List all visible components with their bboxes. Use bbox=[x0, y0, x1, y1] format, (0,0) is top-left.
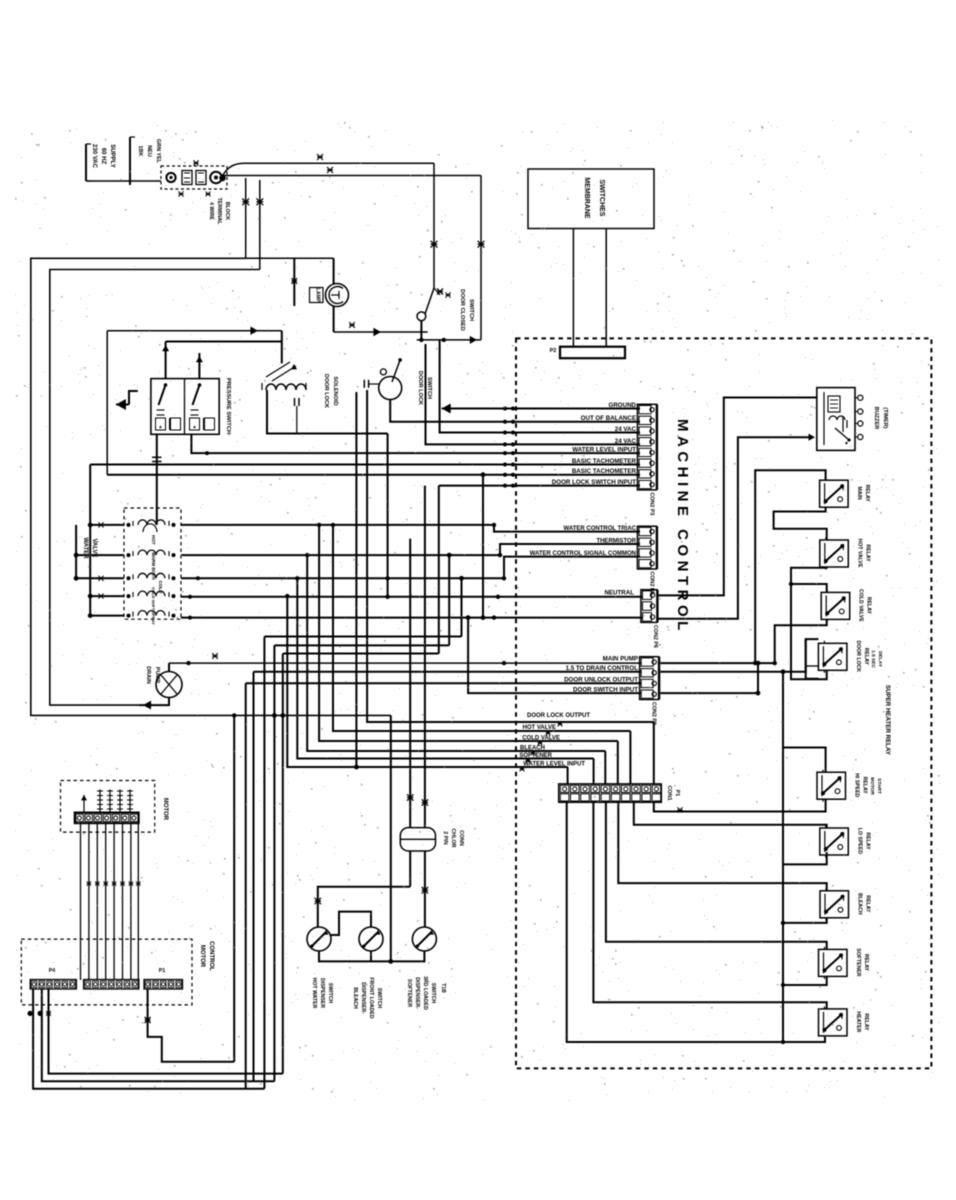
svg-text:SWITCH: SWITCH bbox=[376, 988, 382, 1009]
svg-text:BLOCK: BLOCK bbox=[224, 202, 230, 221]
svg-text:DISPENSER-: DISPENSER- bbox=[360, 982, 366, 1014]
svg-text:RELAY: RELAY bbox=[864, 544, 870, 562]
svg-text:SOFTENER: SOFTENER bbox=[855, 948, 861, 976]
svg-text:MACHINE CONTROL: MACHINE CONTROL bbox=[674, 419, 691, 635]
svg-text:PRESSURE SWITCH: PRESSURE SWITCH bbox=[225, 378, 231, 434]
svg-text:NEUTRAL: NEUTRAL bbox=[604, 589, 634, 596]
svg-text:T1B: T1B bbox=[440, 983, 446, 993]
svg-text:RELAY: RELAY bbox=[863, 954, 869, 972]
svg-text:COLD: COLD bbox=[158, 580, 163, 594]
svg-text:HI SPEED: HI SPEED bbox=[854, 773, 860, 797]
svg-text:RELAY: RELAY bbox=[863, 1013, 869, 1031]
svg-text:SUPPLY: SUPPLY bbox=[109, 144, 115, 167]
svg-text:CONN: CONN bbox=[458, 830, 464, 846]
svg-text:HEATER: HEATER bbox=[855, 1011, 861, 1032]
svg-text:SWITCH: SWITCH bbox=[430, 983, 436, 1004]
svg-text:1.5 TO DRAIN CONTROL: 1.5 TO DRAIN CONTROL bbox=[566, 665, 639, 672]
svg-text:WATER CONTROL SIGNAL COMMON: WATER CONTROL SIGNAL COMMON bbox=[530, 551, 636, 557]
svg-text:NEU: NEU bbox=[146, 145, 152, 157]
svg-text:DOOR LOCK: DOOR LOCK bbox=[855, 640, 861, 672]
svg-text:DISPENSER-: DISPENSER- bbox=[414, 977, 420, 1009]
svg-text:▲: ▲ bbox=[192, 424, 196, 429]
svg-text:CONTROL: CONTROL bbox=[208, 941, 214, 971]
svg-text:WATER CONTROL TRIAC: WATER CONTROL TRIAC bbox=[564, 526, 637, 532]
svg-text:RELAY: RELAY bbox=[864, 485, 870, 503]
svg-text:1BK: 1BK bbox=[137, 145, 143, 156]
svg-text:SUPER HEATER RELAY: SUPER HEATER RELAY bbox=[884, 685, 891, 756]
svg-text:DELAY: DELAY bbox=[877, 651, 883, 668]
svg-text:RELAY: RELAY bbox=[864, 832, 870, 850]
svg-text:P1: P1 bbox=[159, 968, 166, 974]
svg-text:SOFTENER: SOFTENER bbox=[406, 979, 412, 1007]
svg-text:MEMBRANE: MEMBRANE bbox=[583, 177, 590, 219]
svg-text:SOFTENER: SOFTENER bbox=[519, 753, 552, 759]
svg-text:WATER LEVEL INPUT: WATER LEVEL INPUT bbox=[523, 762, 585, 768]
svg-text:SWITCH: SWITCH bbox=[426, 377, 432, 399]
svg-text:LAMP: LAMP bbox=[315, 288, 321, 303]
svg-text:BASIC TACHOMETER: BASIC TACHOMETER bbox=[572, 468, 637, 475]
svg-text:MOTOR: MOTOR bbox=[199, 945, 205, 968]
svg-text:HOT VALVE: HOT VALVE bbox=[523, 725, 556, 731]
svg-text:P2: P2 bbox=[550, 348, 557, 354]
svg-text:CON2 P6: CON2 P6 bbox=[652, 625, 658, 648]
svg-text:BLEACH: BLEACH bbox=[857, 893, 863, 915]
svg-text:3RD LOADED: 3RD LOADED bbox=[422, 976, 428, 1010]
svg-text:BUZZER: BUZZER bbox=[873, 407, 879, 430]
svg-text:RELAY: RELAY bbox=[862, 777, 868, 795]
svg-text:HOT VALVE: HOT VALVE bbox=[856, 539, 862, 568]
svg-text:MAIN: MAIN bbox=[856, 487, 862, 501]
svg-text:P1: P1 bbox=[674, 790, 680, 797]
svg-text:SWITCH: SWITCH bbox=[327, 983, 333, 1004]
svg-text:SWITCHES: SWITCHES bbox=[598, 180, 605, 217]
svg-text:BASIC TACHOMETER: BASIC TACHOMETER bbox=[572, 458, 637, 465]
svg-text:24 VAC: 24 VAC bbox=[615, 426, 637, 433]
svg-text:START: START bbox=[876, 778, 882, 794]
svg-text:DOOR LOCK SWITCH INPUT: DOOR LOCK SWITCH INPUT bbox=[552, 479, 636, 486]
svg-text:2 PIN: 2 PIN bbox=[442, 831, 448, 845]
svg-text:CON1: CON1 bbox=[666, 786, 672, 801]
svg-text:HOT WATER: HOT WATER bbox=[311, 978, 317, 1009]
svg-text:MOTOR: MOTOR bbox=[869, 777, 875, 795]
svg-text:GRN YEL: GRN YEL bbox=[155, 139, 161, 164]
svg-text:24 VAC: 24 VAC bbox=[615, 438, 637, 445]
svg-text:RELAY: RELAY bbox=[866, 597, 872, 615]
svg-text:▲: ▲ bbox=[158, 424, 162, 429]
svg-text:4 WIRE: 4 WIRE bbox=[208, 202, 214, 220]
svg-text:THERMISTOR: THERMISTOR bbox=[596, 539, 636, 545]
svg-text:RELAY: RELAY bbox=[865, 895, 871, 913]
svg-text:FRONT LOADED: FRONT LOADED bbox=[368, 977, 374, 1018]
svg-text:DOOR LOCK OUTPUT: DOOR LOCK OUTPUT bbox=[527, 713, 590, 719]
svg-text:HOT: HOT bbox=[151, 535, 156, 545]
svg-text:60 HZ: 60 HZ bbox=[100, 148, 106, 165]
svg-text:MAIN PUMP: MAIN PUMP bbox=[603, 655, 638, 662]
svg-text:RELAY: RELAY bbox=[863, 648, 869, 666]
svg-text:SOLENOID: SOLENOID bbox=[332, 376, 338, 405]
svg-text:▲: ▲ bbox=[844, 440, 849, 446]
svg-text:LO SPEED: LO SPEED bbox=[856, 828, 862, 854]
svg-text:DOOR SWITCH INPUT: DOOR SWITCH INPUT bbox=[573, 686, 638, 693]
svg-text:DOOR LOCK: DOOR LOCK bbox=[323, 374, 329, 408]
svg-text:DOOR LOCK: DOOR LOCK bbox=[417, 371, 423, 405]
svg-text:1.5 SEC: 1.5 SEC bbox=[870, 650, 876, 668]
svg-text:MOTOR: MOTOR bbox=[162, 798, 168, 821]
svg-text:WARM BOTH: WARM BOTH bbox=[151, 552, 156, 580]
svg-text:BLEACH: BLEACH bbox=[520, 746, 545, 752]
svg-text:DRAIN: DRAIN bbox=[145, 666, 151, 684]
svg-text:OUT OF BALANCE: OUT OF BALANCE bbox=[581, 415, 636, 422]
svg-text:BLEACH: BLEACH bbox=[352, 987, 358, 1009]
svg-text:DISPENSER: DISPENSER bbox=[319, 978, 325, 1008]
svg-text:COLD VALVE: COLD VALVE bbox=[522, 736, 560, 742]
svg-text:SWITCH: SWITCH bbox=[468, 299, 474, 321]
svg-text:COLD VALVE: COLD VALVE bbox=[858, 589, 864, 622]
svg-text:(TIMER): (TIMER) bbox=[882, 407, 888, 428]
svg-text:CON2 P9: CON2 P9 bbox=[651, 702, 657, 725]
svg-text:CON2 P3: CON2 P3 bbox=[648, 492, 654, 515]
svg-text:CHLOR: CHLOR bbox=[450, 828, 456, 847]
svg-text:COLD SOFT SPRAY: COLD SOFT SPRAY bbox=[151, 587, 156, 625]
svg-text:GROUND: GROUND bbox=[609, 402, 637, 409]
svg-text:DOOR UNLOCK OUTPUT: DOOR UNLOCK OUTPUT bbox=[564, 676, 638, 683]
